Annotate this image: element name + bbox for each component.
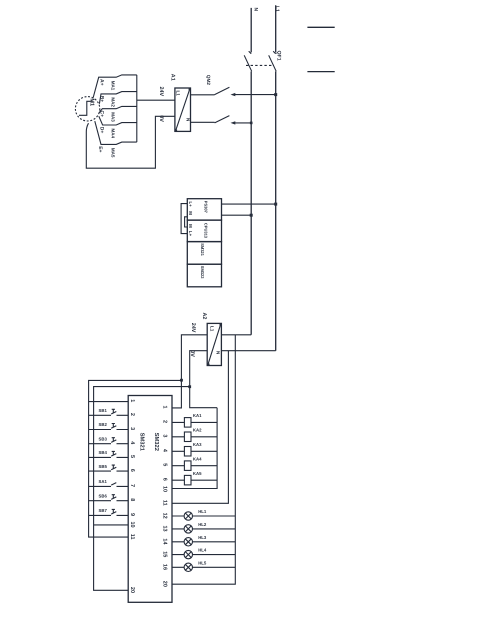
svg-text:1: 1 [129,399,135,402]
wire stub B+ / MA2 [99,92,136,104]
svg-text:CPU313: CPU313 [203,223,208,239]
node junction dot (N tap) [250,122,253,125]
svg-text:4: 4 [162,449,168,453]
svg-text:SB3: SB3 [99,436,108,441]
svg-text:N: N [185,118,190,122]
svg-text:13: 13 [162,526,168,532]
wire PS307 N input to N [222,214,252,216]
wire 24V rail (A2 to SM322 pin1) [172,335,207,408]
wire stub E+ / MA5 [95,121,137,144]
svg-text:MA3: MA3 [111,112,116,122]
svg-text:MA2: MA2 [111,97,116,107]
svg-text:6: 6 [129,469,135,472]
svg-text:SM322: SM322 [153,433,160,451]
svg-text:SB1: SB1 [99,408,108,413]
wire 0V rail (A2 down) [190,351,217,408]
svg-text:A+: A+ [98,79,104,86]
relay coil KA5 [172,475,217,485]
svg-text:KA4: KA4 [193,457,202,462]
wire L1 to QM2 top contact (with connector arrow) [231,93,276,96]
svg-text:PS307: PS307 [203,201,208,214]
svg-text:M1: M1 [89,98,95,106]
svg-text:SB6: SB6 [99,493,108,498]
svg-text:6: 6 [162,478,168,481]
module SM321 box [187,242,221,265]
svg-text:3: 3 [129,427,135,430]
pushbutton SB7 row [89,509,129,515]
svg-text:QM2: QM2 [206,75,211,86]
svg-text:SB7: SB7 [99,508,108,513]
svg-text:20: 20 [162,581,168,587]
lamp HL2 [172,525,235,533]
svg-text:24V: 24V [158,87,164,97]
svg-text:16: 16 [162,564,168,570]
wire (top-right dash 2) [307,71,334,73]
relay coil KA1 [172,418,217,428]
wire coil return bracket to pin10 [172,408,217,489]
pushbutton SB1 row [89,409,129,415]
svg-text:L+: L+ [188,231,193,237]
svg-text:L1: L1 [210,326,215,332]
svg-text:QF1: QF1 [276,51,282,61]
wire stub A+ / MA1 [93,75,137,98]
module PS307 box [187,199,221,220]
wire A2 L input from N line [221,334,251,336]
pushbutton SB3 row [89,438,129,444]
wire pin11 rail from A2 N input [172,351,228,504]
svg-text:SB2: SB2 [99,422,108,427]
relay coil KA2 [172,432,217,442]
svg-text:SA1: SA1 [99,479,108,484]
svg-text:1: 1 [162,406,168,409]
switch QM2 (2-pole plug/contact) [191,87,230,123]
svg-text:MA4: MA4 [111,129,116,139]
svg-text:10: 10 [129,522,135,528]
pushbutton SB2 row [89,424,129,430]
selector switch SA1 row [89,483,129,487]
svg-text:E+: E+ [97,146,103,152]
svg-text:SM321: SM321 [200,243,205,256]
svg-text:20: 20 [129,587,135,593]
node L1 (right mains vertical line) [275,5,277,351]
svg-text:HL3: HL3 [198,535,207,540]
svg-text:5: 5 [129,455,135,458]
svg-text:KA2: KA2 [193,428,202,433]
wire L+ bracket (PS307 to CPU313) [181,204,187,234]
svg-text:2: 2 [162,420,168,423]
svg-text:2: 2 [129,413,135,416]
lamp HL5 [172,563,235,571]
motor M1 (stepper, dashed circle) [75,97,99,121]
svg-text:12: 12 [162,513,168,519]
svg-text:SB4: SB4 [99,450,108,455]
node junction dot (L1 tap) [274,93,277,96]
svg-text:11: 11 [129,534,135,540]
wire stub D+ / MA4 [99,116,137,125]
svg-text:HL5: HL5 [198,560,207,565]
svg-text:11: 11 [162,500,168,506]
wire (top-right dash 1) [307,26,334,28]
svg-text:9: 9 [129,513,135,516]
wire stub C+ / MA3 [99,106,137,112]
pushbutton SB5 row [89,465,129,471]
power supply A1 box [175,88,191,132]
svg-text:MA5: MA5 [111,148,116,158]
svg-text:5: 5 [162,463,168,466]
wire input row pin10 [94,524,129,526]
pushbutton SB6 row [89,495,129,501]
breaker QF1 [244,51,276,71]
node junction dot [250,214,253,217]
lamp HL4 [172,550,235,558]
svg-text:D+: D+ [98,127,104,134]
svg-text:8: 8 [129,498,135,501]
svg-text:A2: A2 [201,313,207,320]
wire 0V return loop (A1 to motor common) [86,116,175,168]
svg-text:N: N [215,351,220,355]
lamp HL1 [172,512,235,520]
wire 24V feeder to left rail [89,380,182,537]
svg-text:24V: 24V [190,323,196,333]
svg-text:HL1: HL1 [198,509,207,514]
wire M bracket (PS307 to CPU313) [185,217,188,227]
svg-text:10: 10 [162,486,168,492]
svg-text:KA1: KA1 [193,413,202,418]
svg-text:4: 4 [129,441,135,445]
relay coil KA4 [172,461,217,471]
wire lamp rail from A2 L input [172,335,235,584]
svg-text:B+: B+ [98,96,104,103]
power supply A2 box [207,323,222,365]
svg-text:7: 7 [129,484,135,487]
node junction dot (0V tap) [188,385,191,388]
wire SM322 pin1 stub [172,407,181,409]
module SM322 box [187,264,221,287]
PLC I/O box (SM321/SM322 terminals) [128,396,172,603]
svg-text:A1: A1 [169,74,175,81]
node junction dot [274,203,277,206]
wire 24V bus to A1 [137,99,175,101]
svg-text:SM321: SM321 [138,433,145,452]
wire A2 N input from L1 line [221,350,275,352]
wire 0V feeder to inner left rail [94,387,190,591]
node N (left mains vertical line) [250,8,252,335]
pushbutton SB4 row [89,451,129,457]
wire N to QM2 bottom contact (with connector arrow) [231,121,252,124]
svg-text:M: M [188,211,193,215]
svg-text:15: 15 [162,551,168,557]
wire PS307 L input to L1 [222,203,276,205]
svg-text:L1: L1 [176,91,181,97]
svg-text:HL2: HL2 [198,522,207,527]
svg-text:L1: L1 [274,6,280,12]
svg-text:14: 14 [162,538,168,545]
svg-text:3: 3 [162,434,168,437]
svg-text:L+: L+ [188,202,193,208]
wire input row pin1 [89,401,129,403]
svg-text:SB5: SB5 [99,464,108,469]
node junction dot (24V tap) [180,379,183,382]
motor wire bus [136,75,138,142]
svg-text:N: N [253,8,259,12]
svg-text:MA1: MA1 [111,81,116,91]
module CPU313 box [187,220,221,242]
svg-text:KA5: KA5 [193,471,202,476]
svg-text:KA3: KA3 [193,442,202,447]
lamp HL3 [172,538,235,546]
svg-text:M: M [188,224,193,228]
relay coil KA3 [172,447,217,457]
svg-text:SM322: SM322 [200,266,205,279]
svg-text:HL4: HL4 [198,548,207,553]
